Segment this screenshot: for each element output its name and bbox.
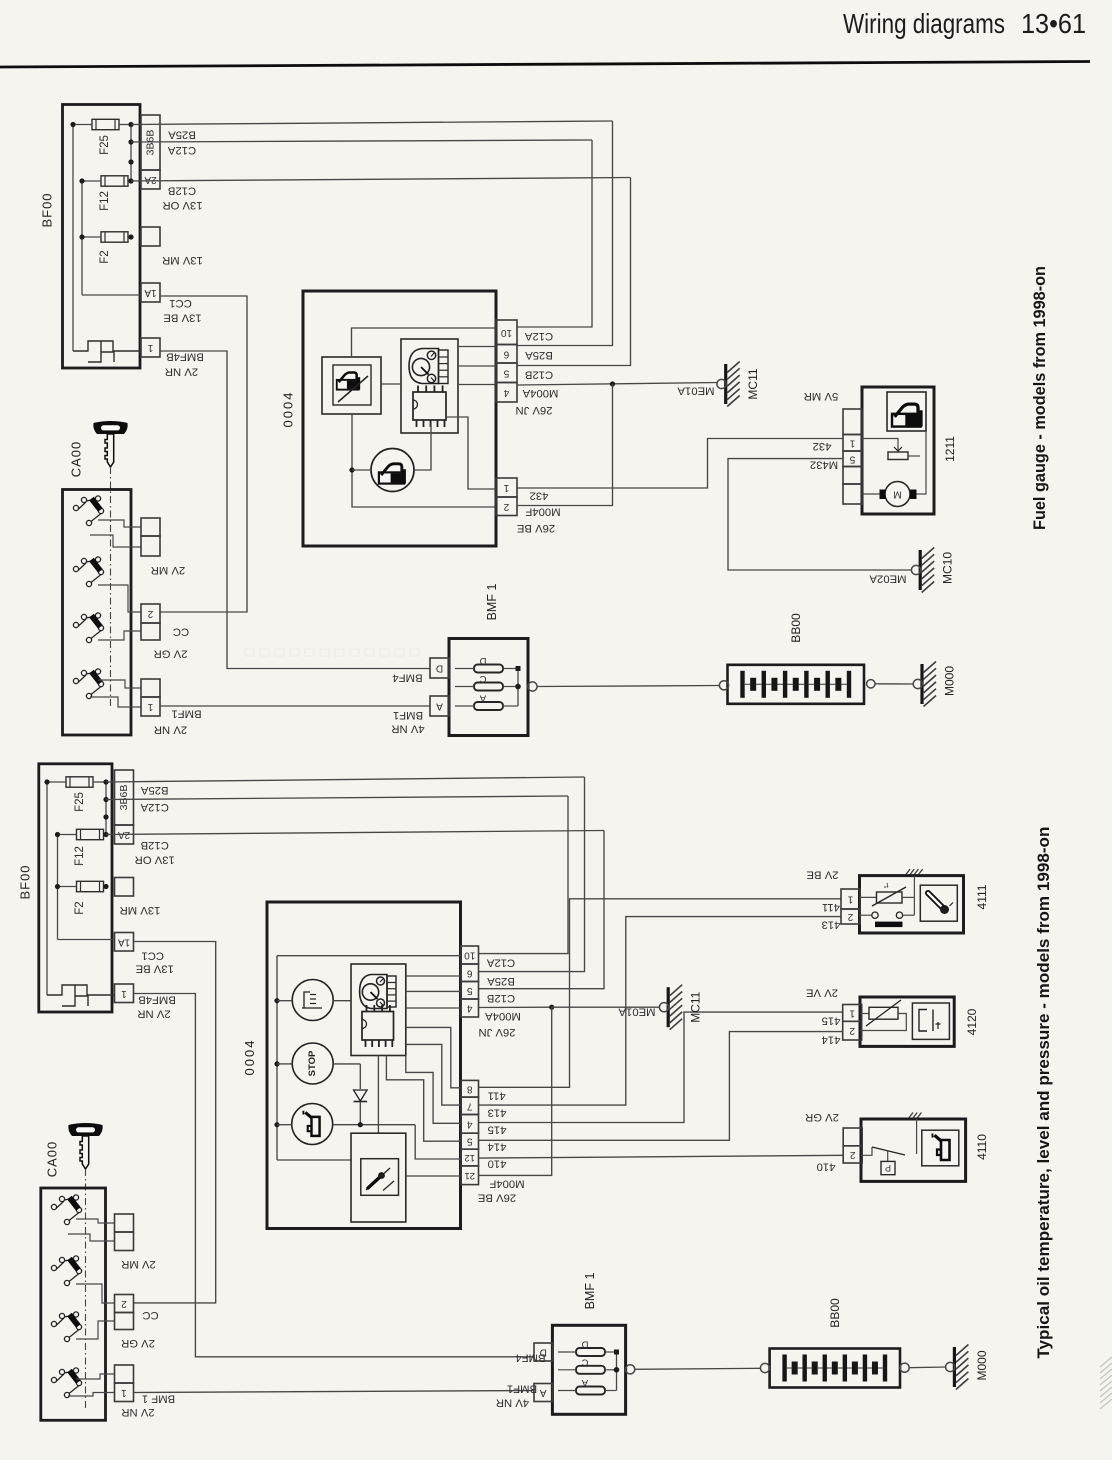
svg-text:13V MR: 13V MR xyxy=(120,904,161,916)
svg-text:4V NR: 4V NR xyxy=(391,723,424,735)
svg-text:1: 1 xyxy=(503,482,509,493)
svg-text:BMF1: BMF1 xyxy=(393,709,423,721)
svg-text:2V NR: 2V NR xyxy=(165,366,198,378)
svg-text:A: A xyxy=(540,1387,547,1398)
svg-text:STOP: STOP xyxy=(307,1050,318,1076)
svg-text:2V MR: 2V MR xyxy=(121,1258,156,1270)
svg-text:2V MR: 2V MR xyxy=(151,564,186,576)
svg-text:5: 5 xyxy=(849,453,855,464)
svg-text:CC: CC xyxy=(173,626,189,638)
svg-text:4V NR: 4V NR xyxy=(496,1397,529,1409)
svg-text:2V NR: 2V NR xyxy=(121,1406,154,1418)
svg-text:415: 415 xyxy=(488,1124,507,1136)
svg-text:M004F: M004F xyxy=(525,506,560,518)
svg-text:MC10: MC10 xyxy=(941,552,955,584)
svg-text:1211: 1211 xyxy=(943,436,957,462)
svg-text:2: 2 xyxy=(847,911,853,922)
svg-text:BF00: BF00 xyxy=(40,192,55,227)
svg-text:1: 1 xyxy=(121,988,127,999)
svg-text:M004F: M004F xyxy=(489,1178,524,1190)
svg-text:A: A xyxy=(479,693,486,704)
svg-text:F12: F12 xyxy=(74,846,86,866)
svg-text:C12A: C12A xyxy=(486,957,515,969)
svg-text:C12A: C12A xyxy=(140,801,169,813)
svg-text:CA00: CA00 xyxy=(45,1141,60,1178)
svg-text:432: 432 xyxy=(530,490,549,502)
svg-text:D: D xyxy=(436,663,443,674)
svg-text:C: C xyxy=(581,1356,588,1367)
svg-text:BMF4: BMF4 xyxy=(392,672,422,684)
svg-text:10: 10 xyxy=(464,950,476,961)
svg-text:1: 1 xyxy=(121,1387,127,1398)
svg-text:F25: F25 xyxy=(99,135,111,155)
svg-text:BB00: BB00 xyxy=(789,613,803,643)
svg-text:5: 5 xyxy=(467,985,473,996)
svg-text:ME01A: ME01A xyxy=(618,1006,656,1018)
svg-text:D: D xyxy=(581,1339,588,1350)
svg-text:3B6B: 3B6B xyxy=(118,785,130,811)
svg-text:2: 2 xyxy=(503,501,509,512)
svg-text:411: 411 xyxy=(488,1090,506,1102)
svg-text:CC1: CC1 xyxy=(169,297,192,309)
svg-text:2: 2 xyxy=(849,1149,855,1160)
svg-text:BMF4B: BMF4B xyxy=(138,994,176,1006)
svg-text:13V BE: 13V BE xyxy=(135,963,174,975)
svg-text:13V MR: 13V MR xyxy=(162,254,203,266)
svg-text:21: 21 xyxy=(464,1170,475,1181)
svg-text:4120: 4120 xyxy=(965,1008,979,1035)
svg-text:CA00: CA00 xyxy=(69,441,84,478)
svg-text:4: 4 xyxy=(467,1118,473,1129)
svg-text:0004: 0004 xyxy=(242,1039,257,1076)
svg-text:C12B: C12B xyxy=(525,369,553,381)
svg-text:C12A: C12A xyxy=(524,330,553,342)
svg-text:2V GR: 2V GR xyxy=(154,648,188,660)
svg-text:M000: M000 xyxy=(975,1350,989,1380)
svg-text:C12B: C12B xyxy=(141,839,169,851)
svg-text:410: 410 xyxy=(488,1157,507,1169)
svg-text:CC: CC xyxy=(142,1309,158,1321)
svg-text:4111: 4111 xyxy=(975,884,989,909)
svg-text:8: 8 xyxy=(467,1083,473,1094)
svg-text:MC11: MC11 xyxy=(746,368,760,399)
svg-text:ME01A: ME01A xyxy=(677,385,715,397)
svg-text:26V JN: 26V JN xyxy=(478,1026,515,1038)
svg-text:C: C xyxy=(479,673,486,684)
svg-text:M004A: M004A xyxy=(485,1010,521,1022)
svg-text:F2: F2 xyxy=(99,250,111,263)
svg-text:C12B: C12B xyxy=(168,185,196,197)
svg-text:4: 4 xyxy=(467,1003,473,1014)
svg-text:1: 1 xyxy=(147,342,153,353)
svg-text:MC11: MC11 xyxy=(689,991,703,1022)
svg-text:BMF 1: BMF 1 xyxy=(485,584,499,621)
svg-text:2V GR: 2V GR xyxy=(805,1111,839,1123)
svg-text:C12B: C12B xyxy=(487,992,515,1004)
svg-text:4: 4 xyxy=(503,387,509,398)
svg-text:BB00: BB00 xyxy=(828,1298,842,1328)
svg-text:B25A: B25A xyxy=(525,349,553,361)
svg-text:B25A: B25A xyxy=(487,975,515,987)
svg-text:413: 413 xyxy=(822,919,841,931)
svg-text:13V BE: 13V BE xyxy=(163,312,202,324)
svg-text:B25A: B25A xyxy=(140,784,168,796)
svg-text:M000: M000 xyxy=(943,666,957,696)
svg-text:CC1: CC1 xyxy=(141,950,164,962)
svg-text:Typical oil temperature, level: Typical oil temperature, level and press… xyxy=(1035,827,1053,1359)
svg-text:BMF1: BMF1 xyxy=(171,708,201,720)
svg-text:BMF 1: BMF 1 xyxy=(142,1393,175,1405)
svg-text:t°: t° xyxy=(883,881,888,890)
svg-text:7: 7 xyxy=(467,1100,473,1111)
svg-text:1: 1 xyxy=(847,894,853,905)
svg-text:432: 432 xyxy=(813,440,832,452)
svg-text:12: 12 xyxy=(464,1152,475,1163)
svg-text:M432: M432 xyxy=(810,459,838,471)
svg-text:414: 414 xyxy=(488,1141,507,1153)
svg-text:A: A xyxy=(581,1377,588,1388)
svg-text:2: 2 xyxy=(849,1025,855,1036)
svg-text:2: 2 xyxy=(121,1298,127,1309)
svg-text:B25A: B25A xyxy=(168,129,196,141)
svg-text:414: 414 xyxy=(822,1034,841,1046)
svg-text:13V OR: 13V OR xyxy=(135,854,175,866)
svg-text:Wiring diagrams: Wiring diagrams xyxy=(843,8,1005,39)
svg-text:F25: F25 xyxy=(74,792,86,812)
svg-text:2: 2 xyxy=(147,608,153,619)
svg-text:6: 6 xyxy=(467,967,473,978)
svg-text:0004: 0004 xyxy=(281,391,296,428)
svg-text:BMF4: BMF4 xyxy=(515,1352,545,1364)
svg-text:ME02A: ME02A xyxy=(869,573,907,585)
svg-text:F2: F2 xyxy=(74,901,86,914)
svg-text:26V JN: 26V JN xyxy=(515,404,552,416)
svg-text:5V MR: 5V MR xyxy=(804,390,839,402)
svg-text:5: 5 xyxy=(503,367,509,378)
svg-text:BMF1: BMF1 xyxy=(507,1383,537,1395)
svg-text:D: D xyxy=(479,655,486,666)
svg-text:2V GR: 2V GR xyxy=(121,1337,155,1349)
svg-text:410: 410 xyxy=(817,1161,836,1173)
svg-text:M004A: M004A xyxy=(522,387,558,399)
svg-text:26V BE: 26V BE xyxy=(477,1192,516,1204)
svg-text:Fuel gauge - models from 1998-: Fuel gauge - models from 1998-on xyxy=(1031,266,1049,530)
svg-text:1A: 1A xyxy=(118,936,131,947)
svg-text:2V VE: 2V VE xyxy=(806,987,838,999)
svg-text:1: 1 xyxy=(147,701,153,712)
svg-text:415: 415 xyxy=(822,1015,841,1027)
svg-text:C12A: C12A xyxy=(167,144,196,156)
svg-text:A: A xyxy=(436,701,443,712)
svg-text:M: M xyxy=(893,489,901,500)
svg-text:F12: F12 xyxy=(99,191,111,211)
svg-text:1: 1 xyxy=(849,437,855,448)
svg-text:P: P xyxy=(885,1163,891,1173)
svg-text:13V OR: 13V OR xyxy=(162,199,202,211)
svg-text:2V NR: 2V NR xyxy=(154,724,187,736)
svg-text:2V BE: 2V BE xyxy=(806,869,838,881)
svg-text:1A: 1A xyxy=(144,287,157,298)
svg-text:13•61: 13•61 xyxy=(1021,8,1086,39)
svg-text:BMF 1: BMF 1 xyxy=(583,1273,597,1310)
svg-text:10: 10 xyxy=(501,327,513,338)
svg-text:4110: 4110 xyxy=(975,1134,989,1160)
svg-text:26V BE: 26V BE xyxy=(516,522,555,534)
svg-text:BF00: BF00 xyxy=(18,864,33,899)
svg-text:BMF4B: BMF4B xyxy=(166,351,204,363)
svg-text:2A: 2A xyxy=(144,174,157,185)
svg-text:413: 413 xyxy=(488,1107,507,1119)
svg-text:5: 5 xyxy=(467,1136,473,1147)
svg-text:1: 1 xyxy=(849,1007,855,1018)
svg-text:411: 411 xyxy=(822,901,840,913)
svg-text:6: 6 xyxy=(503,348,509,359)
svg-text:2V NR: 2V NR xyxy=(137,1008,170,1020)
